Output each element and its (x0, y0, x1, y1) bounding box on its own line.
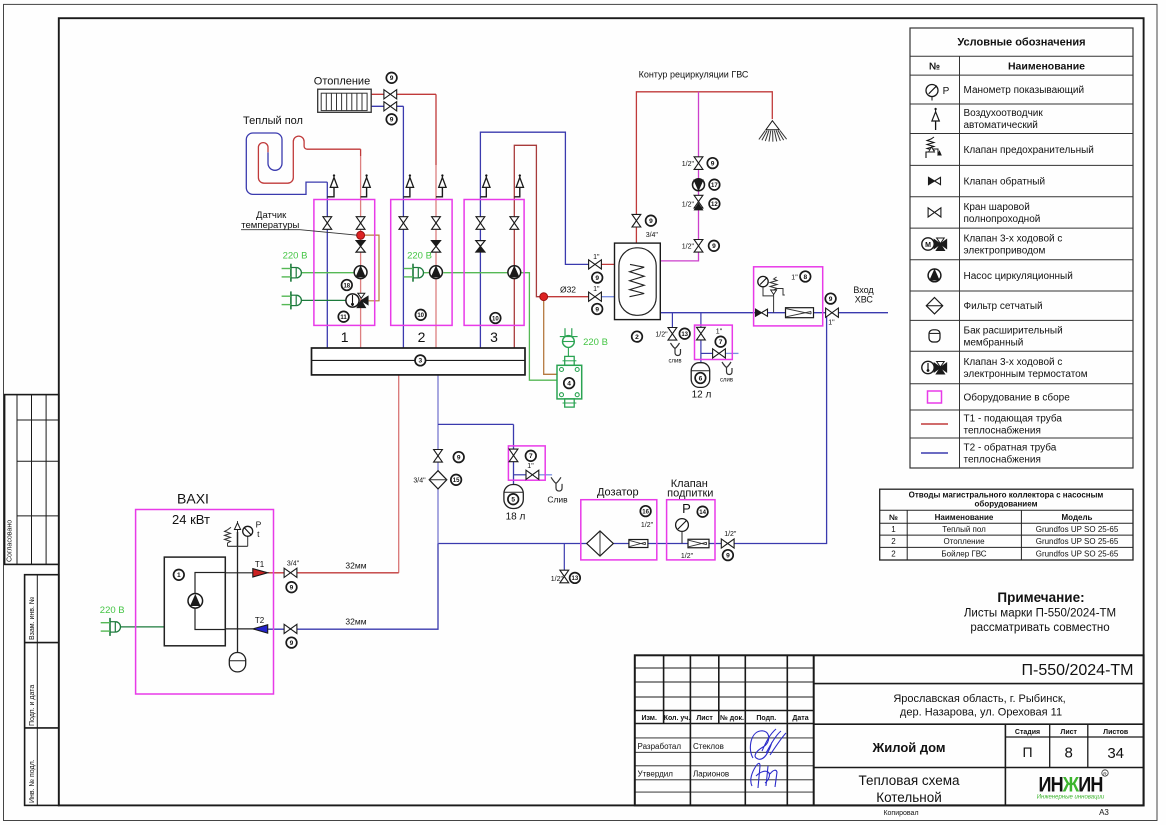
svg-text:220 В: 220 В (583, 337, 608, 348)
svg-text:электроприводом: электроприводом (964, 246, 1046, 257)
svg-text:4: 4 (567, 380, 571, 387)
svg-text:Лист: Лист (1060, 729, 1077, 736)
svg-text:Т1: Т1 (255, 560, 265, 569)
svg-text:Слив: Слив (547, 495, 568, 505)
svg-text:5: 5 (511, 497, 515, 504)
svg-text:Отопление: Отопление (943, 537, 985, 546)
svg-text:18 л: 18 л (506, 512, 526, 523)
svg-text:мембранный: мембранный (964, 336, 1024, 348)
svg-text:Манометр показывающий: Манометр показывающий (964, 85, 1085, 96)
svg-text:№: № (929, 62, 940, 73)
svg-text:3: 3 (418, 358, 422, 365)
svg-text:34: 34 (1107, 745, 1124, 762)
svg-text:1/2": 1/2" (682, 202, 695, 209)
svg-text:1": 1" (527, 463, 534, 470)
svg-text:15: 15 (453, 478, 460, 484)
svg-text:3/4": 3/4" (413, 478, 426, 485)
svg-text:220 В: 220 В (407, 251, 432, 262)
svg-text:9: 9 (390, 117, 394, 124)
svg-text:10: 10 (492, 316, 499, 322)
svg-text:теплоснабжения: теплоснабжения (964, 454, 1041, 466)
svg-text:1: 1 (341, 329, 349, 345)
svg-text:1/2": 1/2" (551, 576, 564, 583)
svg-text:Ø32: Ø32 (560, 285, 576, 295)
svg-text:Подп.: Подп. (756, 715, 776, 722)
svg-text:9: 9 (649, 218, 653, 225)
svg-text:2: 2 (418, 329, 426, 345)
svg-text:Кран шаровой: Кран шаровой (964, 202, 1030, 213)
svg-text:24 кВт: 24 кВт (172, 512, 210, 527)
svg-text:12 л: 12 л (692, 390, 712, 401)
svg-text:Отводы магистрального коллекто: Отводы магистрального коллектора с насос… (909, 491, 1104, 500)
svg-text:8: 8 (803, 274, 807, 281)
svg-text:6: 6 (699, 375, 703, 382)
svg-text:Листы марки П-550/2024-ТМ: Листы марки П-550/2024-ТМ (964, 608, 1116, 620)
svg-text:Отопление: Отопление (314, 76, 370, 88)
svg-text:Кол. уч.: Кол. уч. (664, 715, 691, 722)
svg-text:Стадия: Стадия (1015, 729, 1040, 736)
svg-text:№ док.: № док. (720, 714, 744, 722)
svg-text:Т2: Т2 (255, 616, 265, 625)
svg-text:18: 18 (343, 283, 350, 289)
svg-text:2: 2 (891, 537, 896, 546)
svg-text:А3: А3 (1099, 808, 1109, 817)
svg-text:П: П (1022, 744, 1032, 760)
svg-text:Модель: Модель (1062, 513, 1093, 522)
svg-text:Котельной: Котельной (876, 790, 942, 805)
svg-text:Т2 - обратная труба: Т2 - обратная труба (964, 442, 1057, 454)
svg-text:Контур рециркуляции ГВС: Контур рециркуляции ГВС (639, 70, 749, 80)
svg-text:слив: слив (720, 378, 733, 384)
svg-text:слив: слив (668, 359, 681, 365)
svg-text:8: 8 (1065, 745, 1073, 762)
svg-text:Теплый пол: Теплый пол (243, 115, 303, 127)
svg-text:П-550/2024-ТМ: П-550/2024-ТМ (1022, 662, 1134, 679)
svg-text:Тепловая схема: Тепловая схема (858, 773, 960, 788)
svg-text:Клапан предохранительный: Клапан предохранительный (964, 145, 1094, 156)
svg-text:220 В: 220 В (283, 251, 308, 262)
svg-text:Условные обозначения: Условные обозначения (957, 37, 1085, 49)
svg-text:Воздухоотводчик: Воздухоотводчик (964, 108, 1044, 119)
svg-text:2: 2 (891, 549, 896, 558)
svg-text:1: 1 (891, 525, 896, 534)
svg-text:220 В: 220 В (100, 605, 125, 616)
svg-text:Ларионов: Ларионов (693, 770, 729, 779)
svg-text:ХВС: ХВС (855, 295, 874, 305)
svg-text:1/2": 1/2" (682, 161, 695, 168)
svg-text:13: 13 (681, 332, 688, 338)
svg-text:16: 16 (642, 509, 649, 515)
svg-text:Наименование: Наименование (935, 513, 994, 522)
svg-text:№: № (889, 513, 898, 522)
svg-text:теплоснабжения: теплоснабжения (964, 425, 1041, 437)
svg-text:Утвердил: Утвердил (638, 770, 674, 779)
svg-text:Разработал: Разработал (638, 742, 682, 751)
svg-text:температуры: температуры (241, 220, 299, 231)
svg-text:Grundfos UP SO 25-65: Grundfos UP SO 25-65 (1036, 525, 1119, 534)
svg-text:Насос циркуляционный: Насос циркуляционный (964, 271, 1073, 282)
svg-text:11: 11 (340, 315, 347, 321)
svg-text:Дата: Дата (792, 715, 808, 722)
svg-text:Т1 - подающая труба: Т1 - подающая труба (964, 413, 1063, 425)
svg-text:Клапан обратный: Клапан обратный (964, 176, 1046, 188)
svg-text:Инженерные инновации: Инженерные инновации (1037, 795, 1105, 801)
svg-text:2: 2 (635, 334, 639, 341)
svg-text:Дозатор: Дозатор (597, 486, 639, 498)
svg-text:1": 1" (828, 320, 835, 327)
svg-text:подпитки: подпитки (667, 488, 713, 500)
svg-text:3/4": 3/4" (287, 561, 300, 568)
svg-text:Инв. № подл.: Инв. № подл. (29, 759, 36, 803)
svg-text:9: 9 (829, 296, 833, 303)
svg-text:9: 9 (595, 275, 599, 282)
svg-text:1/2": 1/2" (681, 553, 694, 560)
svg-text:12: 12 (711, 202, 718, 208)
svg-text:32мм: 32мм (345, 617, 366, 627)
svg-text:BAXI: BAXI (177, 491, 209, 507)
svg-text:полнопроходной: полнопроходной (964, 214, 1041, 225)
svg-text:M: M (925, 242, 931, 249)
svg-text:32мм: 32мм (345, 561, 366, 571)
svg-text:R: R (1103, 771, 1107, 777)
svg-text:9: 9 (595, 306, 599, 313)
svg-text:9: 9 (726, 552, 730, 559)
svg-text:10: 10 (417, 313, 424, 319)
svg-text:Теплый пол: Теплый пол (942, 525, 986, 534)
svg-text:электронным термостатом: электронным термостатом (964, 369, 1088, 380)
svg-text:Согласовано: Согласовано (7, 520, 14, 562)
svg-text:9: 9 (457, 454, 461, 461)
svg-text:3/4": 3/4" (646, 232, 659, 239)
svg-text:Изм.: Изм. (641, 715, 657, 722)
svg-text:дер. Назарова, ул. Ореховая 11: дер. Назарова, ул. Ореховая 11 (900, 707, 1062, 719)
svg-text:Стеклов: Стеклов (693, 742, 724, 751)
svg-text:Копировал: Копировал (883, 810, 918, 817)
svg-text:Фильтр сетчатый: Фильтр сетчатый (964, 301, 1043, 312)
svg-text:оборудованием: оборудованием (975, 500, 1038, 509)
svg-text:1": 1" (716, 329, 723, 336)
svg-text:Клапан 3-х ходовой с: Клапан 3-х ходовой с (964, 357, 1063, 368)
svg-text:Grundfos UP SO 25-65: Grundfos UP SO 25-65 (1036, 537, 1119, 546)
svg-text:1/2": 1/2" (655, 332, 668, 339)
svg-text:9: 9 (711, 160, 715, 167)
svg-text:Бак расширительный: Бак расширительный (964, 325, 1063, 336)
svg-text:Наименование: Наименование (1008, 61, 1085, 73)
svg-text:1": 1" (791, 275, 798, 282)
svg-text:Р: Р (943, 86, 950, 97)
svg-text:Примечание:: Примечание: (997, 590, 1084, 605)
svg-text:1/2": 1/2" (724, 531, 737, 538)
svg-text:Подп. и дата: Подп. и дата (29, 685, 36, 726)
svg-text:1: 1 (177, 572, 181, 579)
svg-text:1/2": 1/2" (641, 522, 654, 529)
svg-text:9: 9 (290, 585, 294, 592)
svg-text:рассматривать совместно: рассматривать совместно (970, 622, 1109, 634)
svg-text:17: 17 (711, 183, 718, 189)
svg-text:Листов: Листов (1103, 729, 1129, 736)
svg-text:Ярославская область, г. Рыбинс: Ярославская область, г. Рыбинск, (893, 693, 1065, 705)
svg-text:Взам. инв. №: Взам. инв. № (29, 597, 36, 640)
svg-text:1": 1" (593, 286, 600, 293)
svg-text:9: 9 (290, 640, 294, 647)
svg-text:14: 14 (699, 510, 706, 516)
svg-text:3: 3 (490, 329, 498, 345)
svg-text:P: P (682, 501, 691, 516)
svg-text:Лист: Лист (696, 715, 713, 722)
svg-text:P: P (256, 520, 262, 530)
svg-text:Оборудование в сборе: Оборудование в сборе (964, 392, 1071, 404)
svg-text:Grundfos UP SO 25-65: Grundfos UP SO 25-65 (1036, 549, 1119, 558)
svg-text:ИНЖИН: ИНЖИН (1039, 774, 1103, 797)
svg-text:1": 1" (593, 254, 600, 261)
svg-text:7: 7 (719, 339, 723, 346)
svg-text:автоматический: автоматический (964, 120, 1038, 131)
svg-text:Клапан 3-х ходовой с: Клапан 3-х ходовой с (964, 234, 1063, 245)
svg-text:13: 13 (572, 576, 579, 582)
svg-text:7: 7 (529, 453, 533, 460)
svg-text:Вход: Вход (853, 285, 874, 295)
svg-text:Бойлер ГВС: Бойлер ГВС (941, 549, 986, 558)
svg-text:1/2": 1/2" (682, 244, 695, 251)
svg-text:9: 9 (712, 243, 716, 250)
svg-text:9: 9 (390, 75, 394, 82)
svg-text:Жилой дом: Жилой дом (871, 740, 945, 755)
